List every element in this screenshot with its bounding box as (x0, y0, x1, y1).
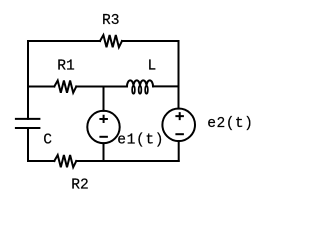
svg-text:C: C (43, 133, 52, 149)
capacitor C top plate (15, 118, 41, 120)
wire top left segment (28, 40, 100, 42)
svg-text:R3: R3 (102, 13, 120, 29)
capacitor C bottom plate (15, 127, 41, 129)
resistor R1 (54, 81, 76, 93)
svg-text:e2(t): e2(t) (207, 116, 253, 132)
wire bottom left segment (28, 160, 54, 162)
source e2 circle (162, 109, 195, 142)
wire middle center segment (76, 86, 127, 88)
e2 plus sign (175, 112, 184, 120)
inductor L (127, 80, 153, 93)
svg-text:R1: R1 (57, 58, 75, 74)
wire e2 bottom stub (178, 141, 180, 161)
wire e1 bottom stub (103, 143, 105, 161)
svg-text:e1(t): e1(t) (117, 133, 164, 149)
svg-text:R2: R2 (71, 177, 89, 193)
resistor R3 (100, 35, 122, 47)
e1 plus sign (99, 115, 108, 123)
e1 minus sign (99, 136, 108, 138)
source e1 circle (87, 111, 119, 143)
wire top right segment (122, 40, 179, 42)
resistor R2 (54, 155, 76, 167)
wire bottom right segment (76, 160, 178, 162)
e2 minus sign (175, 133, 184, 135)
wire right vertical (178, 41, 180, 109)
wire left vertical lower (27, 128, 29, 161)
svg-text:L: L (148, 59, 157, 75)
wire middle right segment (153, 85, 179, 87)
wire e1 top stub (103, 87, 105, 111)
wire middle left segment (28, 86, 54, 88)
wire left vertical upper (27, 41, 29, 119)
